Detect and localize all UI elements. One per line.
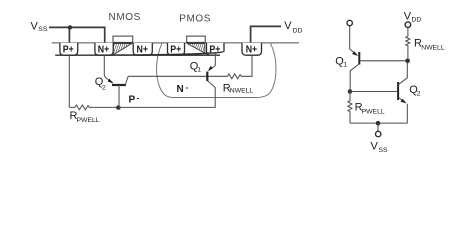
svg-text:N+: N+ — [246, 45, 258, 56]
svg-text:1: 1 — [343, 62, 347, 69]
svg-text:NWELL: NWELL — [421, 44, 445, 51]
svg-text:P+: P+ — [63, 45, 74, 56]
svg-text:PWELL: PWELL — [362, 109, 385, 116]
svg-text:PMOS: PMOS — [179, 13, 211, 24]
svg-text:P: P — [129, 95, 136, 106]
svg-text:-: - — [186, 83, 189, 92]
svg-text:PWELL: PWELL — [77, 117, 100, 124]
svg-text:NWELL: NWELL — [230, 88, 254, 95]
svg-text:N+: N+ — [137, 45, 149, 56]
svg-text:NMOS: NMOS — [109, 12, 141, 23]
svg-text:DD: DD — [293, 28, 303, 35]
svg-text:2: 2 — [417, 90, 421, 97]
svg-text:P+: P+ — [170, 45, 181, 56]
svg-text:2: 2 — [102, 85, 106, 92]
svg-text:-: - — [137, 94, 140, 103]
svg-text:V: V — [31, 20, 39, 32]
svg-text:1: 1 — [197, 67, 201, 74]
svg-text:V: V — [284, 20, 292, 32]
svg-text:SS: SS — [379, 147, 389, 154]
svg-text:DD: DD — [412, 17, 422, 24]
svg-text:SS: SS — [38, 26, 48, 33]
svg-text:N: N — [177, 84, 184, 95]
svg-text:V: V — [371, 141, 379, 153]
svg-text:N+: N+ — [98, 45, 110, 56]
